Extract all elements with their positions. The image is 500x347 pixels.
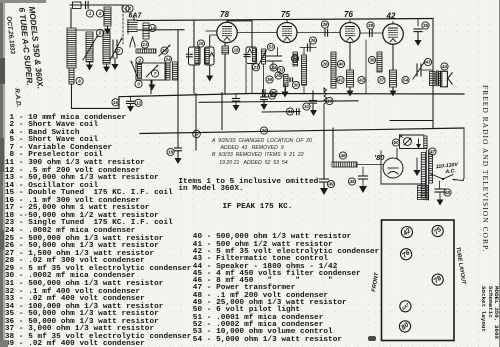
- speaker cone: [448, 73, 452, 84]
- label 2: [96, 10, 103, 17]
- vertical x246: [245, 64, 247, 94]
- resistor 13 horizontal: [136, 49, 156, 53]
- tube V1 6A7 grids: [128, 20, 138, 47]
- long vertical x178: [177, 30, 179, 94]
- resistor 40 vertical: [331, 52, 336, 88]
- label 4 top: [122, 5, 129, 12]
- wire r27 bot: [285, 87, 287, 92]
- bus C2 top: [390, 121, 433, 129]
- tube V3 75: [277, 10, 297, 43]
- label 29: [268, 92, 275, 99]
- capacitor plates long: [267, 56, 282, 70]
- svg-text:40: 40: [337, 62, 344, 67]
- wire antenna down: [70, 8, 72, 28]
- cap 16 on bus: [127, 97, 135, 112]
- label 48: [444, 189, 451, 196]
- cathode 78 resistor: [222, 43, 229, 94]
- label 30b: [292, 81, 299, 88]
- label 37b: [378, 76, 385, 83]
- label 1: [86, 10, 93, 17]
- AC vertical right: [463, 128, 464, 181]
- wire r26 top: [303, 48, 305, 56]
- svg-text:19: 19: [327, 99, 333, 104]
- svg-text:76: 76: [344, 10, 353, 19]
- svg-text:37: 37: [379, 78, 385, 83]
- label 33: [277, 66, 284, 73]
- wire 78 top to diode box: [227, 21, 252, 48]
- wire r26 bot: [303, 85, 305, 93]
- svg-text:1: 1: [89, 11, 92, 16]
- wire rail down right: [432, 19, 434, 129]
- svg-text:33: 33: [278, 68, 284, 73]
- cap 48: [435, 181, 445, 206]
- handwritten RAD: [13, 88, 22, 108]
- parts list left column: [5, 115, 192, 347]
- ground under L2: [104, 29, 111, 35]
- svg-text:6A7: 6A7: [129, 13, 143, 20]
- svg-text:44: 44: [441, 64, 448, 69]
- label 5: [96, 29, 103, 36]
- svg-text:5: 5: [99, 31, 102, 36]
- wire box to bus: [150, 80, 152, 94]
- choke 46: [332, 162, 357, 167]
- label 3: [135, 80, 142, 87]
- ground 42: [390, 87, 397, 97]
- cathode 76: [347, 43, 354, 88]
- label 19: [326, 97, 333, 104]
- wire 75 plate rail: [237, 32, 277, 34]
- power transformer 47 core: [426, 150, 428, 200]
- svg-text:34: 34: [287, 109, 293, 114]
- label 20: [260, 127, 267, 134]
- cap bypass 78: [232, 94, 239, 111]
- low bus D: [140, 128, 464, 134]
- ground under 6: [103, 64, 110, 73]
- svg-text:36: 36: [267, 77, 273, 82]
- svg-text:30: 30: [293, 83, 299, 88]
- note items omitted: [178, 179, 318, 194]
- AC switch: [431, 174, 453, 180]
- speaker box: [441, 71, 448, 87]
- coil 6: [103, 31, 110, 64]
- svg-text:15: 15: [162, 48, 168, 53]
- svg-text:29: 29: [268, 93, 275, 98]
- label 23b: [252, 64, 259, 71]
- IF can 15 A: [187, 21, 201, 94]
- label 54b: [402, 76, 409, 83]
- wire 80 loop: [381, 149, 425, 185]
- label 13: [141, 41, 148, 48]
- label 24b: [164, 56, 171, 63]
- label 16: [167, 148, 174, 155]
- wire tone: [421, 69, 432, 71]
- svg-text:12: 12: [136, 100, 142, 105]
- svg-text:3: 3: [137, 82, 140, 87]
- wire diode down: [251, 64, 253, 93]
- svg-text:26: 26: [321, 62, 328, 67]
- handwritten model title: [17, 6, 45, 90]
- wire 78 grid left: [206, 31, 217, 35]
- label 7b: [151, 70, 158, 77]
- label 40: [337, 60, 344, 67]
- x mark: [400, 135, 402, 138]
- svg-text:46: 46: [339, 153, 346, 158]
- label FRONT: [371, 272, 380, 293]
- svg-text:49: 49: [327, 182, 334, 187]
- label 7: [115, 47, 122, 54]
- preselector coil 8: [67, 28, 76, 84]
- pilot loop: [400, 135, 425, 149]
- resistor 26 vertical: [302, 55, 307, 85]
- label 45: [348, 178, 355, 185]
- ground under 7: [112, 58, 119, 70]
- vertical x178 below: [175, 94, 182, 164]
- svg-text:42: 42: [386, 12, 396, 21]
- label 24c: [270, 64, 277, 71]
- svg-text:31: 31: [304, 104, 310, 109]
- label 12b: [135, 99, 142, 106]
- svg-text:A.C.: A.C.: [444, 168, 456, 175]
- svg-text:43: 43: [424, 60, 431, 65]
- svg-text:47: 47: [429, 149, 436, 154]
- handwritten change note A: [212, 138, 312, 167]
- svg-text:24: 24: [270, 65, 277, 70]
- pilot winding: [424, 136, 427, 149]
- vertical step x222: [221, 93, 223, 130]
- resistor grid 42: [377, 52, 382, 72]
- label 6A7: [129, 13, 143, 20]
- vertical x277: [277, 48, 279, 57]
- svg-text:35: 35: [423, 23, 429, 28]
- ground under box: [149, 80, 156, 91]
- cap 28: [321, 21, 328, 36]
- layout socket 76: [398, 246, 414, 262]
- label 44b: [441, 63, 448, 70]
- svg-text:41: 41: [337, 78, 344, 83]
- coil right2: [173, 62, 178, 80]
- label 16b: [112, 99, 119, 106]
- ground mid: [282, 84, 289, 98]
- svg-text:50: 50: [393, 140, 399, 145]
- variable condenser 7: [110, 38, 122, 60]
- label 17: [193, 130, 201, 138]
- label 35b: [422, 22, 429, 29]
- svg-text:18: 18: [233, 48, 239, 53]
- svg-text:15: 15: [198, 41, 204, 46]
- coil 5 short wave: [86, 32, 93, 62]
- padder arrow in box: [146, 65, 158, 77]
- label 26: [321, 60, 328, 67]
- ground bus A: [72, 94, 465, 109]
- IF can 23 single tuned: [244, 47, 257, 64]
- svg-text:20: 20: [260, 128, 267, 133]
- svg-text:75: 75: [281, 10, 290, 19]
- filter cap 45b: [359, 167, 368, 193]
- oscillator box: [136, 63, 166, 80]
- second rail: [137, 29, 184, 31]
- svg-text:4: 4: [137, 58, 141, 63]
- svg-text:28: 28: [321, 22, 328, 27]
- note IF peak: [223, 204, 293, 212]
- resistor 34 vertical: [293, 52, 298, 66]
- label 41: [337, 76, 344, 83]
- svg-text:54: 54: [403, 78, 409, 83]
- resistor in box: [138, 65, 142, 79]
- svg-text:7: 7: [118, 49, 121, 54]
- capacitor 30 bars: [290, 78, 293, 82]
- tube layout box: [382, 220, 455, 341]
- resistor 17 zigzag: [324, 88, 327, 130]
- long vertical x366: [365, 40, 367, 93]
- AC line text: [436, 162, 460, 176]
- output transformer 44: [430, 71, 442, 86]
- label 34: [291, 55, 298, 62]
- coil right of box: [165, 63, 170, 80]
- svg-text:39: 39: [368, 23, 374, 28]
- ground under IF B: [206, 76, 213, 82]
- resistor 27 vertical: [284, 75, 289, 87]
- svg-text:45: 45: [348, 179, 355, 184]
- svg-text:34: 34: [292, 56, 298, 61]
- label 47: [429, 148, 436, 155]
- band switch arrow: [83, 35, 98, 60]
- wire 6A7 plate to rail: [133, 17, 135, 21]
- cathode 42: [390, 44, 397, 87]
- svg-text:42: 42: [358, 78, 365, 83]
- ground under 5: [86, 62, 93, 71]
- coupling cap 25: [300, 37, 317, 51]
- capacitor on busC: [297, 109, 300, 115]
- wire top coils: [76, 29, 103, 31]
- osc switch arrow: [131, 61, 137, 76]
- choke left lead: [332, 128, 334, 162]
- label 15a: [161, 47, 168, 54]
- label 49: [327, 180, 334, 187]
- wire choke to 80: [357, 164, 383, 166]
- wire coil8 to bus: [71, 84, 73, 108]
- right margin index: [480, 286, 499, 339]
- svg-text:53: 53: [268, 45, 274, 50]
- label 31: [303, 103, 310, 110]
- svg-text:48: 48: [444, 190, 451, 195]
- tube V6 80: [374, 153, 403, 178]
- right margin publisher: [481, 85, 490, 252]
- ground 76: [347, 87, 354, 97]
- svg-text:16: 16: [113, 100, 119, 105]
- svg-text:24: 24: [164, 57, 171, 62]
- svg-text:6A7: 6A7: [401, 302, 411, 311]
- coupling cap 39: [360, 22, 382, 37]
- label 15: [197, 40, 204, 47]
- capacitor C1 (10 mmf): [86, 2, 89, 9]
- label 18: [232, 46, 239, 53]
- IF can 15 B: [205, 36, 215, 76]
- tone control 43: [413, 58, 432, 79]
- mid bus C: [262, 111, 300, 114]
- oscillator coil 14: [143, 23, 149, 39]
- capacitor 38: [263, 90, 266, 96]
- vertical x196 below: [195, 94, 197, 150]
- svg-text:7: 7: [154, 71, 157, 76]
- svg-text:25: 25: [309, 38, 316, 43]
- label TUBE LAYOUT: [455, 246, 467, 285]
- top rail B: [137, 19, 433, 21]
- layout socket 75: [430, 223, 446, 239]
- grid cap top right: [414, 19, 422, 40]
- ground top right: [415, 40, 422, 46]
- ground HV centertap: [414, 158, 421, 176]
- transformer filament winding: [418, 186, 429, 200]
- tube V2 78: [217, 10, 237, 43]
- scan edge artifacts: [0, 0, 5, 347]
- label 36b: [368, 56, 375, 63]
- label 14: [149, 24, 156, 31]
- label 8: [76, 77, 83, 84]
- svg-text:13: 13: [142, 42, 148, 47]
- AC cord arrow: [453, 179, 463, 181]
- label 36: [266, 76, 273, 83]
- svg-text:8: 8: [78, 79, 81, 84]
- wire antenna top rail: [70, 4, 123, 6]
- transformer secondary: [429, 154, 433, 183]
- svg-text:36: 36: [369, 58, 375, 63]
- label 38: [270, 89, 277, 96]
- svg-text:14: 14: [150, 26, 156, 31]
- handwritten date: [5, 16, 16, 54]
- cap x312: [310, 91, 317, 116]
- parts list right column: [193, 234, 380, 343]
- cap x264: [261, 93, 268, 110]
- svg-text:78: 78: [220, 10, 229, 19]
- band switch dashed link: [122, 6, 124, 44]
- label 46: [339, 152, 346, 159]
- pilot arrow: [416, 139, 421, 149]
- pilot lamp 50: [404, 138, 412, 146]
- wire 75 out: [297, 32, 340, 34]
- layout socket 78: [430, 272, 446, 288]
- layout socket 80: [397, 319, 413, 335]
- svg-text:4: 4: [127, 6, 131, 11]
- mid bus B: [199, 101, 358, 103]
- label 50: [392, 139, 399, 146]
- layout socket 42: [399, 224, 415, 240]
- tube V5 42: [383, 12, 404, 45]
- label 42b: [358, 76, 365, 83]
- svg-text:2: 2: [98, 11, 102, 16]
- label 4b: [136, 57, 143, 64]
- label 4 mid: [126, 5, 133, 12]
- label 25: [275, 72, 282, 79]
- tube V4 76: [340, 10, 360, 43]
- svg-text:TUBE LAYOUT: TUBE LAYOUT: [455, 246, 467, 285]
- label 34c: [286, 108, 293, 115]
- antenna terminal box: [73, 2, 82, 9]
- vertical x322 low: [320, 130, 329, 195]
- coil L2 short wave: [104, 7, 111, 29]
- svg-text:’80: ’80: [374, 153, 385, 162]
- trimmer arrow mid: [159, 45, 170, 56]
- volume control 53: [258, 49, 267, 93]
- label 53: [267, 43, 274, 50]
- transformer primary: [421, 153, 425, 199]
- layout socket 6A7: [398, 298, 414, 314]
